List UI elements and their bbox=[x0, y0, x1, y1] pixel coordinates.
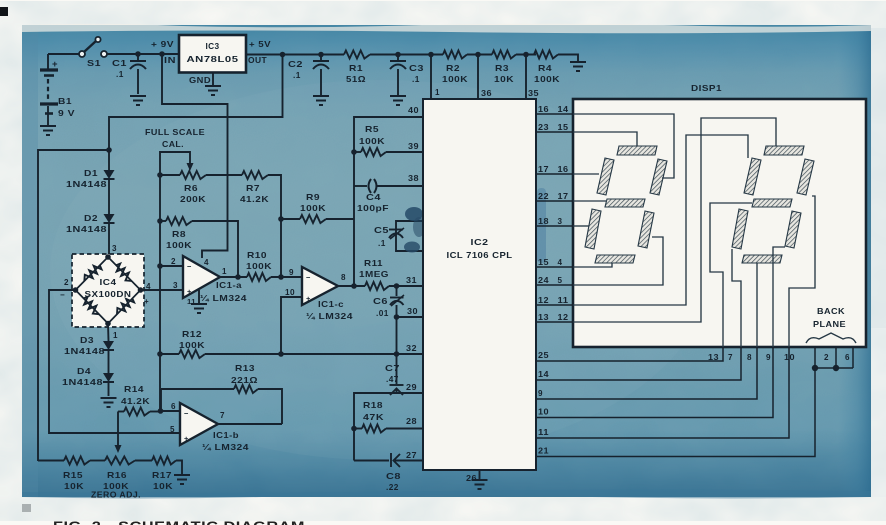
svg-text:1N4148: 1N4148 bbox=[66, 224, 107, 234]
digit1 segment b bbox=[650, 159, 667, 195]
display routing wire pin12 to seg a2 bbox=[573, 118, 776, 322]
svg-text:14: 14 bbox=[538, 370, 549, 379]
digit1 segment g bbox=[605, 199, 645, 207]
svg-text:40: 40 bbox=[408, 106, 419, 115]
resistor R1 bbox=[344, 51, 370, 59]
ground below D4 bbox=[101, 397, 117, 399]
svg-text:3: 3 bbox=[558, 217, 563, 226]
svg-text:+ 5V: + 5V bbox=[249, 39, 271, 49]
svg-text:¼ LM324: ¼ LM324 bbox=[202, 443, 249, 452]
ink smudge over pin 34 bbox=[404, 242, 420, 253]
IC3 GND lead bbox=[212, 73, 214, 86]
teal edge shading left bbox=[22, 25, 38, 497]
ground below IC1-a bbox=[191, 303, 207, 305]
wire +5V branch down from OUT node bbox=[280, 52, 286, 58]
svg-text:12: 12 bbox=[558, 313, 569, 322]
svg-text:C6: C6 bbox=[373, 296, 388, 306]
svg-text:31: 31 bbox=[406, 276, 417, 285]
svg-text:5: 5 bbox=[558, 276, 563, 285]
svg-text:9: 9 bbox=[766, 353, 771, 362]
digit2 segment d bbox=[742, 255, 782, 263]
svg-text:R4: R4 bbox=[538, 63, 552, 73]
svg-text:2: 2 bbox=[824, 353, 829, 362]
resistor R14 41.2K bbox=[118, 411, 124, 413]
wire IC2 pin 23 to DISP1 pin 15 bbox=[536, 131, 573, 133]
svg-text:B1: B1 bbox=[58, 96, 72, 106]
svg-text:1: 1 bbox=[222, 267, 227, 276]
resistor R5 100K bbox=[351, 149, 357, 155]
resistor R10 100K bbox=[247, 273, 271, 281]
svg-text:IC4: IC4 bbox=[100, 278, 117, 287]
svg-text:R11: R11 bbox=[364, 258, 383, 268]
wire R12 to IC2 pin 32 bbox=[205, 353, 423, 355]
svg-text:R16: R16 bbox=[107, 470, 127, 480]
svg-text:R13: R13 bbox=[235, 363, 255, 373]
svg-text:−: − bbox=[184, 409, 189, 418]
wire to IC1-b pin 6 bbox=[161, 410, 181, 412]
wire R14 to R16 wiper arrow bbox=[117, 412, 119, 447]
ground below R17 bbox=[174, 474, 190, 476]
svg-text:38: 38 bbox=[408, 174, 419, 183]
svg-text:25: 25 bbox=[538, 351, 549, 360]
wire IC2 pin 17 to DISP1 pin 16 bbox=[536, 173, 573, 175]
ink smudge over pin 33 bbox=[405, 207, 423, 221]
svg-text:C7: C7 bbox=[385, 363, 400, 373]
IC1-b output wire bbox=[218, 423, 282, 425]
bridge node dots bbox=[105, 254, 111, 260]
svg-text:7: 7 bbox=[728, 353, 733, 362]
svg-text:SX100DN: SX100DN bbox=[85, 290, 132, 299]
resistor R17 10K bbox=[152, 457, 176, 465]
svg-text:1: 1 bbox=[435, 88, 440, 97]
svg-text:4: 4 bbox=[558, 258, 563, 267]
wire IC2 pin 16 to DISP1 pin 14 bbox=[536, 113, 573, 115]
svg-text:11: 11 bbox=[538, 428, 549, 437]
svg-text:1N4148: 1N4148 bbox=[62, 377, 103, 387]
svg-text:BACK: BACK bbox=[817, 306, 845, 316]
svg-text:FULL SCALE: FULL SCALE bbox=[145, 127, 205, 137]
wire S1 to C1 node bbox=[107, 53, 179, 55]
node pin1 drop bbox=[428, 52, 434, 58]
svg-text:41.2K: 41.2K bbox=[240, 194, 269, 204]
svg-text:9: 9 bbox=[538, 389, 543, 398]
wire IC2 pin 25 to display bottom riser bbox=[536, 347, 723, 361]
svg-text:1N4148: 1N4148 bbox=[66, 179, 107, 189]
display routing wire pin7 to seg e2 bbox=[732, 249, 741, 347]
wire bridge left to inner rail bbox=[49, 290, 180, 433]
svg-text:30: 30 bbox=[407, 307, 418, 316]
capacitor C1 bbox=[137, 54, 139, 60]
svg-text:16: 16 bbox=[538, 105, 549, 114]
svg-text:28: 28 bbox=[406, 417, 417, 426]
svg-text:R6: R6 bbox=[184, 183, 198, 193]
resistor R11 1MEG bbox=[365, 282, 389, 290]
teal lighting overlays bbox=[22, 25, 871, 105]
svg-text:2: 2 bbox=[64, 278, 69, 287]
svg-text:−: − bbox=[187, 262, 192, 271]
svg-text:R18: R18 bbox=[363, 400, 383, 410]
svg-text:10: 10 bbox=[784, 353, 795, 362]
ground below C1 bbox=[130, 95, 146, 97]
svg-text:−: − bbox=[60, 291, 65, 300]
wire to IC1-a pin 2 bbox=[157, 263, 163, 269]
scan smear right of IC2 bbox=[537, 188, 546, 263]
wire IC2 pin 15 to DISP1 pin 4 bbox=[536, 266, 573, 268]
teal edge shading right bbox=[838, 25, 871, 497]
capacitor C8 .22 bbox=[354, 460, 389, 462]
svg-text:6: 6 bbox=[845, 353, 850, 362]
display routing wire pin9 to seg c2 bbox=[773, 247, 785, 347]
svg-text:+: + bbox=[306, 294, 311, 303]
svg-text:ICL 7106 CPL: ICL 7106 CPL bbox=[447, 250, 513, 260]
svg-text:39: 39 bbox=[408, 142, 419, 151]
svg-text:100pF: 100pF bbox=[357, 203, 389, 213]
IC1-a output wire bbox=[220, 276, 247, 278]
display routing wire pin14 to seg b1 bbox=[573, 114, 674, 178]
svg-text:R3: R3 bbox=[495, 63, 509, 73]
right margin scan tint bbox=[871, 28, 886, 328]
svg-text:24: 24 bbox=[538, 276, 549, 285]
resistor R4 bbox=[534, 51, 558, 59]
wire +9V branch down from IN node bbox=[162, 54, 228, 258]
digit1 segment d bbox=[595, 255, 635, 263]
capacitor C3 bbox=[395, 52, 401, 58]
svg-text:16: 16 bbox=[558, 165, 569, 174]
svg-text:C4: C4 bbox=[366, 192, 381, 202]
wire R9 to feedback rail bbox=[326, 218, 354, 220]
capacitor C5 loop bbox=[396, 221, 423, 251]
resistor R13 221ohm bbox=[161, 388, 234, 390]
node R9 junction bbox=[278, 216, 284, 222]
svg-text:.1: .1 bbox=[412, 74, 420, 84]
wire R7 corner down to node bbox=[268, 175, 281, 277]
svg-text:D1: D1 bbox=[84, 168, 98, 178]
node IN junction bbox=[159, 51, 165, 57]
wire to IC2 pin 1 bbox=[430, 55, 432, 100]
node C1 junction bbox=[135, 51, 141, 57]
display routing wire pin11 to seg f2 bbox=[573, 135, 748, 305]
svg-text:R10: R10 bbox=[247, 250, 267, 260]
svg-text:10K: 10K bbox=[153, 481, 173, 491]
wire R13 left corner to pin6 node bbox=[160, 389, 162, 411]
svg-text:27: 27 bbox=[406, 451, 417, 460]
svg-text:29: 29 bbox=[406, 383, 417, 392]
svg-text:.01: .01 bbox=[376, 308, 389, 318]
stray pencil mark bottom-left margin bbox=[22, 504, 31, 512]
svg-text:100K: 100K bbox=[534, 74, 560, 84]
wire IC2 pin 22 to DISP1 pin 17 bbox=[536, 200, 573, 202]
wire R18 to IC2 pin 28 bbox=[386, 428, 423, 430]
registration mark top-left bbox=[0, 7, 8, 16]
svg-text:R2: R2 bbox=[446, 63, 460, 73]
digit2 segment f bbox=[744, 158, 761, 195]
svg-text:221Ω: 221Ω bbox=[231, 375, 258, 385]
ground at end of rail bbox=[570, 61, 586, 63]
svg-text:C2: C2 bbox=[288, 59, 303, 69]
capacitor C4 100pF bbox=[354, 185, 367, 187]
svg-text:18: 18 bbox=[538, 217, 549, 226]
display routing wire pin4 to seg d1 bbox=[573, 263, 612, 267]
wire IC2 pin 18 to DISP1 pin 3 bbox=[536, 225, 573, 227]
svg-text:IC3: IC3 bbox=[205, 41, 219, 51]
svg-text:47K: 47K bbox=[363, 412, 384, 422]
wire IC2 pin 24 to DISP1 pin 5 bbox=[536, 284, 573, 286]
svg-text:22: 22 bbox=[538, 192, 549, 201]
display routing wire pin17 to seg g1 bbox=[573, 200, 606, 202]
wire IC2 pin 13 to DISP1 pin 12 bbox=[536, 321, 573, 323]
svg-text:100K: 100K bbox=[166, 240, 192, 250]
svg-text:¼ LM324: ¼ LM324 bbox=[306, 312, 353, 321]
digit2 segment a bbox=[764, 146, 804, 155]
IC IC2 ICL7106CPL bbox=[423, 99, 536, 470]
svg-text:2: 2 bbox=[171, 257, 176, 266]
svg-text:AN78L05: AN78L05 bbox=[187, 54, 239, 64]
ragged teal edges bbox=[22, 24, 871, 34]
ground below C3 bbox=[390, 95, 406, 97]
wire R16 to R17 bbox=[135, 460, 152, 462]
svg-text:10K: 10K bbox=[64, 481, 84, 491]
ground below IC3 bbox=[205, 85, 221, 87]
display routing wire pin5 to seg c1 bbox=[573, 237, 663, 285]
resistor R3 bbox=[492, 51, 516, 59]
svg-text:ZERO ADJ.: ZERO ADJ. bbox=[91, 491, 141, 500]
svg-text:200K: 200K bbox=[180, 194, 206, 204]
digit2 segment g bbox=[752, 199, 792, 207]
wire B1 to S1 bbox=[48, 53, 79, 55]
vertical gain-net rail bbox=[159, 175, 161, 411]
wire C6 node down to pin32 line bbox=[396, 317, 398, 354]
svg-text:D3: D3 bbox=[80, 335, 94, 345]
svg-text:21: 21 bbox=[538, 447, 549, 456]
svg-text:C3: C3 bbox=[409, 63, 424, 73]
wire R17 to ground bbox=[176, 461, 182, 475]
svg-text:IC1-a: IC1-a bbox=[216, 281, 242, 290]
svg-text:10: 10 bbox=[538, 408, 549, 417]
display routing wire pin10 to seg b2 bbox=[789, 196, 815, 347]
svg-text:PLANE: PLANE bbox=[813, 319, 846, 329]
diode D1 1N4148 bbox=[108, 150, 110, 170]
display routing wire pin15 to seg a1 bbox=[573, 132, 637, 146]
regulator IC3 AN78L05 bbox=[179, 35, 246, 73]
svg-text:C1: C1 bbox=[112, 58, 127, 68]
capacitor C7 .47 bbox=[396, 354, 398, 384]
svg-text:1N4148: 1N4148 bbox=[64, 346, 105, 356]
display routing wire pin16 to seg f1 bbox=[573, 173, 599, 175]
svg-text:23: 23 bbox=[538, 123, 549, 132]
diode D3 1N4148 bbox=[103, 341, 114, 350]
display routing wire pin3 to seg e1 bbox=[573, 225, 589, 227]
svg-text:14: 14 bbox=[558, 105, 569, 114]
svg-text:5: 5 bbox=[170, 425, 175, 434]
wire IC2 pin 9 to display bottom riser bbox=[536, 347, 757, 399]
svg-text:13: 13 bbox=[708, 353, 719, 362]
digit1 segment e bbox=[585, 209, 601, 249]
svg-text:17: 17 bbox=[538, 165, 549, 174]
wire R5 to IC2 pin 39 bbox=[386, 151, 423, 153]
svg-text:26: 26 bbox=[466, 474, 477, 483]
svg-text:CAL.: CAL. bbox=[162, 139, 184, 149]
resistor R8 100K bbox=[157, 218, 163, 224]
svg-text:100K: 100K bbox=[179, 340, 205, 350]
resistor R2 bbox=[443, 51, 467, 59]
resistor R6 200K bbox=[157, 172, 163, 178]
svg-text:R5: R5 bbox=[365, 124, 379, 134]
IC2 pin 26 ground lead bbox=[479, 470, 481, 479]
svg-text:+: + bbox=[52, 59, 58, 70]
wire to IC2 pin 35 bbox=[525, 55, 527, 100]
svg-text:9: 9 bbox=[289, 268, 294, 277]
resistor R16 100K zero adj bbox=[105, 457, 135, 465]
svg-text:32: 32 bbox=[406, 344, 417, 353]
bridge sensor IC4 SX100DN bbox=[72, 254, 144, 327]
wire +5V to outer left rail bbox=[106, 147, 112, 153]
op-amp IC1-c bbox=[302, 267, 338, 305]
digit1 segment a bbox=[617, 146, 657, 155]
wire to IC2 pin 36 bbox=[477, 55, 479, 100]
svg-text:+: + bbox=[144, 297, 149, 306]
wire R15 to R16 bbox=[90, 460, 105, 462]
wire IC2 pin 29 bbox=[354, 393, 423, 461]
svg-text:6: 6 bbox=[171, 402, 176, 411]
node pin36 drop bbox=[475, 52, 481, 58]
svg-text:11: 11 bbox=[558, 296, 569, 305]
svg-text:+: + bbox=[184, 434, 189, 443]
svg-text:D4: D4 bbox=[77, 366, 91, 376]
wire bridge bottom to D3 bbox=[107, 324, 110, 342]
svg-text:.1: .1 bbox=[116, 69, 124, 79]
svg-text:4: 4 bbox=[204, 258, 209, 267]
ground below IC2 bbox=[472, 479, 488, 481]
svg-text:GND: GND bbox=[189, 75, 211, 85]
svg-text:C8: C8 bbox=[386, 471, 401, 481]
capacitor C2 bbox=[318, 52, 324, 58]
svg-text:.1: .1 bbox=[378, 238, 386, 248]
digit1 segment c bbox=[638, 211, 654, 248]
resistor R18 47K bbox=[351, 426, 357, 432]
wire R6 to R7 bbox=[206, 174, 242, 176]
svg-text:15: 15 bbox=[558, 123, 569, 132]
svg-text:C5: C5 bbox=[374, 225, 389, 235]
svg-text:R7: R7 bbox=[246, 183, 260, 193]
svg-text:100K: 100K bbox=[246, 261, 272, 271]
digit2 segment b bbox=[797, 159, 814, 195]
svg-text:10K: 10K bbox=[494, 74, 514, 84]
svg-text:IC1-b: IC1-b bbox=[213, 431, 239, 440]
wire pin10 feedback bbox=[281, 297, 302, 354]
svg-text:IC1-c: IC1-c bbox=[318, 300, 344, 309]
display DISP1 box bbox=[573, 99, 866, 347]
svg-text:R9: R9 bbox=[306, 192, 320, 202]
wire IC2 pin 14 to display bottom riser bbox=[536, 347, 741, 380]
svg-text:100K: 100K bbox=[359, 136, 385, 146]
svg-text:¼ LM324: ¼ LM324 bbox=[200, 294, 247, 303]
svg-text:8: 8 bbox=[341, 273, 346, 282]
svg-text:1: 1 bbox=[113, 331, 118, 340]
svg-text:+: + bbox=[187, 287, 192, 296]
svg-text:3: 3 bbox=[112, 244, 117, 253]
diode D4 1N4148 bbox=[103, 373, 114, 382]
digit2 segment c bbox=[785, 211, 801, 248]
resistor R9 100K bbox=[281, 218, 300, 220]
svg-text:9 V: 9 V bbox=[58, 108, 75, 118]
svg-text:−: − bbox=[306, 273, 311, 282]
resistor R7 41.2K bbox=[242, 171, 268, 179]
resistor R12 100K bbox=[157, 351, 163, 357]
wire R11 to IC2 pin 31 bbox=[389, 285, 423, 287]
svg-text:IC2: IC2 bbox=[471, 237, 489, 247]
wire to IC2 pin 30 bbox=[394, 314, 400, 320]
wire R10 to IC1-c pin 9 bbox=[271, 276, 302, 278]
svg-text:.1: .1 bbox=[293, 70, 301, 80]
digit2 segment e bbox=[732, 209, 748, 249]
svg-text:FIG. 2—SCHEMATIC DIAGRAM: FIG. 2—SCHEMATIC DIAGRAM bbox=[53, 520, 305, 525]
backplane brace bbox=[806, 333, 856, 343]
svg-text:36: 36 bbox=[481, 89, 492, 98]
switch S1 bbox=[79, 51, 85, 57]
svg-text:R1: R1 bbox=[349, 63, 363, 73]
svg-text:S1: S1 bbox=[87, 58, 101, 68]
wire IC2 pin 21 to display bottom riser bbox=[536, 368, 815, 457]
svg-text:R15: R15 bbox=[63, 470, 83, 480]
svg-text:IN: IN bbox=[164, 55, 176, 65]
svg-text:D2: D2 bbox=[84, 213, 98, 223]
IC1-c output wire bbox=[338, 285, 365, 287]
wire IC3 OUT to +5V rail bbox=[246, 54, 321, 56]
svg-text:R8: R8 bbox=[172, 229, 186, 239]
op-amp IC1-b bbox=[180, 403, 218, 445]
IC1-a pin 11 ground lead bbox=[198, 290, 200, 303]
wire IC2 pin 10 to display bottom riser bbox=[536, 347, 773, 418]
svg-text:41.2K: 41.2K bbox=[121, 396, 150, 406]
capacitor C6 .01 bbox=[396, 286, 398, 296]
svg-text:15: 15 bbox=[538, 258, 549, 267]
svg-text:3: 3 bbox=[173, 281, 178, 290]
svg-text:100K: 100K bbox=[442, 74, 468, 84]
wire bridge right to IC1-a pin3 bbox=[141, 289, 184, 291]
svg-text:.47: .47 bbox=[386, 374, 399, 384]
svg-text:R14: R14 bbox=[124, 384, 144, 394]
svg-text:8: 8 bbox=[747, 353, 752, 362]
display routing wire pin8 to seg d2 bbox=[756, 263, 758, 347]
backplane junction dots bbox=[812, 365, 818, 371]
svg-text:OUT: OUT bbox=[248, 55, 267, 65]
svg-text:51Ω: 51Ω bbox=[346, 74, 366, 84]
node pin35 drop bbox=[523, 52, 529, 58]
diode D2 1N4148 bbox=[104, 214, 115, 223]
svg-text:100K: 100K bbox=[300, 203, 326, 213]
digit1 segment f bbox=[597, 158, 614, 195]
wire R8 to output node bbox=[192, 221, 238, 277]
wire IC2 pin 12 to DISP1 pin 11 bbox=[536, 304, 573, 306]
svg-text:35: 35 bbox=[528, 89, 539, 98]
svg-text:DISP1: DISP1 bbox=[691, 83, 722, 93]
svg-text:13: 13 bbox=[538, 313, 549, 322]
svg-text:17: 17 bbox=[558, 192, 569, 201]
battery B1 bbox=[47, 54, 49, 69]
op-amp IC1-a bbox=[183, 256, 220, 298]
backplane tie line bbox=[814, 347, 816, 368]
svg-text:R12: R12 bbox=[182, 329, 202, 339]
ground below C2 bbox=[313, 95, 329, 97]
display routing wire pin13 to seg g2 bbox=[710, 203, 752, 347]
svg-text:R17: R17 bbox=[152, 470, 172, 480]
ground below B1 bbox=[40, 125, 56, 127]
wire IC2 pin 11 to display bottom riser bbox=[536, 347, 789, 438]
resistor R15 10K bbox=[64, 457, 90, 465]
pot R6 200K wiper loop bbox=[160, 152, 190, 175]
svg-text:100K: 100K bbox=[103, 481, 129, 491]
svg-text:12: 12 bbox=[538, 296, 549, 305]
